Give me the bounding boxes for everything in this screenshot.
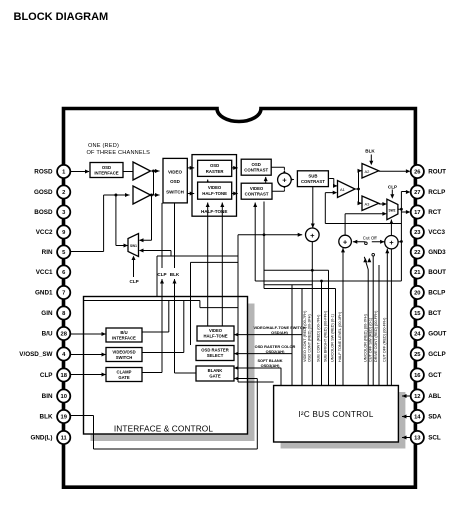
svg-text:RCT: RCT (428, 209, 441, 216)
svg-text:HALF TONE LEVEL (00-3FH): HALF TONE LEVEL (00-3FH) (338, 311, 342, 362)
svg-text:VIDEO: VIDEO (209, 328, 223, 333)
svg-text:OSD3(AH): OSD3(AH) (261, 363, 281, 368)
svg-text:CLP: CLP (40, 372, 53, 379)
svg-text:CONTRAST: CONTRAST (301, 179, 325, 184)
svg-text:CLP: CLP (388, 185, 397, 190)
svg-text:18: 18 (60, 373, 67, 379)
svg-text:RIN: RIN (42, 249, 53, 256)
svg-text:CLAMP: CLAMP (117, 369, 132, 374)
svg-text:INTERFACE: INTERFACE (94, 170, 118, 175)
svg-text:ONE (RED): ONE (RED) (88, 143, 119, 149)
svg-text:HALF-TONE: HALF-TONE (203, 334, 227, 339)
svg-text:OSD(AH): OSD(AH) (271, 330, 288, 335)
svg-text:A3: A3 (365, 201, 371, 206)
svg-text:SWITCH: SWITCH (116, 355, 133, 360)
svg-text:27: 27 (414, 190, 420, 196)
svg-text:15: 15 (414, 311, 421, 317)
svg-text:BOSD: BOSD (34, 209, 53, 216)
svg-text:25: 25 (414, 352, 421, 358)
svg-text:SUB: SUB (308, 173, 317, 178)
svg-text:BOUT: BOUT (428, 269, 446, 276)
svg-text:VCC1: VCC1 (36, 269, 53, 276)
svg-text:VIDEO: VIDEO (168, 169, 183, 174)
svg-text:INTERFACE: INTERFACE (112, 335, 136, 340)
svg-text:BCT: BCT (428, 310, 441, 317)
svg-text:VIDEO/OSD: VIDEO/OSD (112, 349, 135, 354)
svg-text:VIDEO: VIDEO (208, 185, 222, 190)
svg-text:SDA: SDA (428, 414, 442, 421)
svg-text:16: 16 (414, 373, 421, 379)
svg-text:INTERFACE & CONTROL: INTERFACE & CONTROL (114, 424, 213, 434)
svg-text:SWITCH: SWITCH (166, 189, 184, 194)
svg-text:GND3: GND3 (428, 249, 446, 256)
svg-text:28: 28 (60, 332, 67, 338)
svg-text:13: 13 (414, 436, 421, 442)
svg-text:22: 22 (414, 250, 420, 256)
svg-text:7: 7 (62, 291, 65, 297)
svg-text:ABL: ABL (428, 393, 441, 400)
svg-text:BLOCK DIAGRAM: BLOCK DIAGRAM (14, 11, 109, 23)
svg-text:14: 14 (414, 415, 421, 421)
svg-text:21: 21 (414, 270, 421, 276)
svg-text:BIN: BIN (42, 393, 53, 400)
svg-text:SELECT: SELECT (207, 353, 224, 358)
svg-text:+: + (343, 238, 348, 247)
svg-text:B/U: B/U (120, 330, 127, 335)
svg-text:B/U: B/U (42, 331, 53, 338)
svg-text:GIN: GIN (41, 310, 53, 317)
svg-text:CUT OFF (RED) (00-FFH): CUT OFF (RED) (00-FFH) (382, 317, 386, 362)
svg-text:OSD RASTER: OSD RASTER (201, 348, 228, 353)
svg-text:GND(L): GND(L) (30, 435, 52, 442)
svg-text:+: + (310, 231, 315, 240)
svg-text:+: + (389, 238, 394, 247)
svg-text:OSD: OSD (252, 162, 261, 167)
svg-text:Cut Off: Cut Off (363, 235, 378, 240)
svg-text:VIDEO CONT (RED) (00-7FH): VIDEO CONT (RED) (00-7FH) (303, 310, 307, 362)
svg-text:BLK: BLK (40, 414, 53, 421)
svg-text:+: + (282, 175, 287, 184)
svg-text:SUB CONT (RED) (00-7FH): SUB CONT (RED) (00-7FH) (317, 314, 321, 362)
svg-text:24: 24 (414, 332, 421, 338)
svg-text:11: 11 (61, 436, 68, 442)
svg-text:10: 10 (60, 394, 66, 400)
svg-text:CUT OFF SW (RED) (0-1): CUT OFF SW (RED) (0-1) (368, 317, 372, 362)
svg-text:A2: A2 (365, 169, 371, 174)
svg-text:CONTRAST: CONTRAST (245, 192, 269, 197)
svg-text:GCT: GCT (428, 372, 441, 379)
svg-text:SUB BRIGHT (RED) (00-FFH): SUB BRIGHT (RED) (00-FFH) (324, 310, 328, 362)
svg-text:GCLP: GCLP (428, 351, 446, 358)
svg-text:OSD: OSD (102, 165, 111, 170)
svg-text:19: 19 (60, 415, 67, 421)
svg-text:20: 20 (414, 291, 420, 297)
svg-text:HALF-TONE: HALF-TONE (201, 209, 227, 214)
svg-text:UNICOLOR SW (RED) (0-1): UNICOLOR SW (RED) (0-1) (331, 313, 335, 362)
svg-text:A1: A1 (340, 187, 346, 192)
svg-text:ROUT: ROUT (428, 169, 446, 176)
svg-text:SW2: SW2 (389, 209, 396, 213)
svg-text:CLP: CLP (130, 279, 139, 284)
svg-text:GATE: GATE (118, 375, 130, 380)
svg-text:SW1: SW1 (130, 244, 137, 248)
svg-text:23: 23 (414, 230, 421, 236)
svg-text:DRIVE CONT (RED) (00-FFH): DRIVE CONT (RED) (00-FFH) (374, 310, 378, 362)
svg-text:HALF-TONE: HALF-TONE (202, 191, 227, 196)
svg-text:CLP: CLP (157, 272, 166, 277)
svg-text:26: 26 (414, 170, 421, 176)
svg-text:I²C BUS CONTROL: I²C BUS CONTROL (298, 410, 373, 419)
svg-text:BLK: BLK (365, 149, 375, 154)
svg-text:GOSD: GOSD (34, 189, 53, 196)
svg-text:CONTRAST: CONTRAST (244, 168, 268, 173)
svg-text:SCL: SCL (428, 435, 441, 442)
svg-text:OF THREE CHANNELS: OF THREE CHANNELS (87, 150, 151, 156)
svg-text:OSD: OSD (170, 179, 181, 184)
svg-text:GOUT: GOUT (428, 331, 446, 338)
svg-text:17: 17 (414, 210, 420, 216)
svg-text:GATE: GATE (209, 374, 221, 379)
svg-text:V/OSD_SW: V/OSD_SW (19, 351, 52, 358)
svg-text:BLK: BLK (170, 272, 180, 277)
svg-text:BLANK: BLANK (208, 368, 223, 373)
svg-text:UNICOLOR (RED) (00-7FH): UNICOLOR (RED) (00-7FH) (363, 313, 367, 362)
svg-text:VIDEO: VIDEO (250, 186, 264, 191)
svg-text:VCC3: VCC3 (428, 229, 445, 236)
svg-text:ROSD: ROSD (34, 169, 53, 176)
svg-text:GND1: GND1 (35, 290, 53, 297)
svg-text:OSD: OSD (210, 163, 219, 168)
svg-text:OSD2(AH): OSD2(AH) (266, 349, 286, 354)
svg-text:RCLP: RCLP (428, 189, 445, 196)
svg-text:12: 12 (414, 394, 420, 400)
svg-text:VCC2: VCC2 (36, 229, 53, 236)
svg-text:BCLP: BCLP (428, 290, 445, 297)
svg-text:OSD CONT (RED) (00-3FH): OSD CONT (RED) (00-3FH) (308, 313, 312, 362)
svg-text:2: 2 (62, 190, 65, 196)
svg-text:RASTER: RASTER (206, 169, 225, 174)
